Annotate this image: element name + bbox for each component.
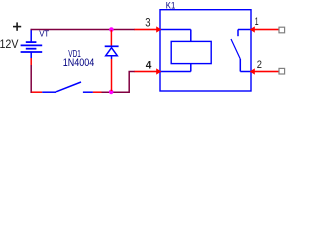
svg-text:1: 1 <box>255 16 259 28</box>
junction dot at diode anode / bottom rail <box>109 90 114 95</box>
wire: battery bottom drop <box>30 65 33 92</box>
wire: bottom rail from switch to jog corner <box>102 72 136 93</box>
switch S left pin <box>32 91 43 93</box>
svg-text:12V: 12V <box>0 38 19 51</box>
pin 1 <box>250 26 279 32</box>
switch S body <box>42 82 93 92</box>
relay K1 coil <box>161 30 212 72</box>
svg-text:1N4004: 1N4004 <box>63 57 95 69</box>
svg-text:2: 2 <box>257 59 262 71</box>
battery VT plus sign <box>13 22 21 30</box>
relay K1 box <box>160 10 251 91</box>
pin 2 <box>250 68 279 74</box>
diode VD1 body <box>105 46 119 59</box>
wire: top rail from battery to relay pin 3 <box>31 29 136 31</box>
pin 1 open square terminal <box>279 27 285 33</box>
diode VD1 bottom pin (anode) <box>111 59 113 91</box>
pin 4 <box>135 68 162 74</box>
svg-text:3: 3 <box>145 15 151 29</box>
diode VD1 top pin (cathode) <box>110 30 112 46</box>
svg-text:K1: K1 <box>166 1 176 11</box>
relay K1 contact <box>231 30 251 72</box>
switch S right pin <box>93 91 102 93</box>
junction dot at diode cathode / top rail <box>109 27 114 32</box>
battery VT symbol <box>21 29 43 58</box>
battery VT bottom pin <box>30 58 32 65</box>
svg-text:4: 4 <box>146 59 152 71</box>
pin 3 <box>135 26 162 32</box>
pin 2 open square terminal <box>279 68 285 74</box>
